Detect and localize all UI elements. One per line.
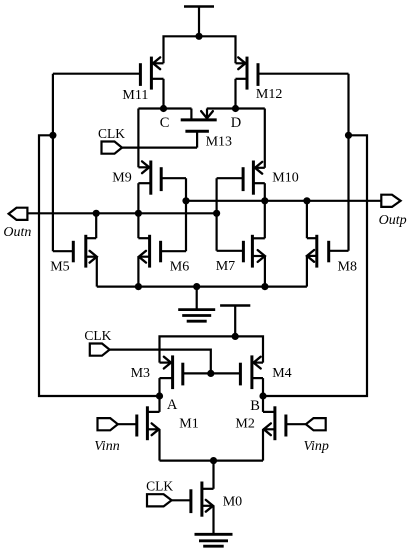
wire NMOS source rail [97, 286, 307, 288]
transistor M8 source lead [307, 256, 317, 287]
transistor M8 gate lead [329, 250, 349, 252]
transistor M13 right lead [206, 109, 208, 120]
svg-text:M4: M4 [272, 366, 291, 381]
transistor M3 channel bar [171, 355, 174, 389]
transistor M0 drain lead [202, 461, 214, 489]
transistor M10 gate lead [217, 177, 244, 179]
svg-text:C: C [160, 115, 170, 131]
svg-text:M10: M10 [272, 171, 298, 186]
transistor M8 drain lead [307, 201, 317, 238]
port CLK middle [90, 344, 110, 356]
svg-text:M5: M5 [50, 260, 69, 275]
transistor M7 gate bar [242, 241, 245, 262]
transistor M5 gate lead [53, 250, 73, 252]
transistor M4 source lead [252, 378, 263, 396]
svg-text:M6: M6 [170, 260, 189, 275]
vdd supply VDD2 [220, 306, 250, 337]
node VDD2 junction [232, 333, 239, 340]
wire M3-M4 gate line [183, 372, 241, 374]
transistor M7 drain lead [252, 237, 264, 239]
transistor M2 source arrow [264, 423, 271, 435]
transistor M10 drain lead [253, 167, 264, 169]
node B junction [259, 392, 266, 399]
transistor M5 gate bar [72, 241, 75, 262]
transistor M13 source arrow [201, 111, 213, 118]
svg-text:M13: M13 [206, 134, 232, 149]
node Outp-M9 gate [182, 197, 189, 204]
svg-text:M11: M11 [122, 88, 148, 103]
transistor M1 channel bar [146, 406, 149, 440]
svg-text:Vinp: Vinp [304, 439, 329, 454]
wire tail rail [160, 460, 264, 462]
ground lower [195, 534, 233, 546]
node Outn-M5 [93, 210, 100, 217]
node D junction [232, 105, 239, 112]
svg-text:M12: M12 [256, 87, 282, 102]
transistor M0 gate bar [189, 489, 192, 513]
transistor M6 source lead [138, 257, 149, 287]
transistor M0 source lead [202, 506, 214, 535]
transistor M11 drain lead [151, 62, 163, 64]
transistor M7 source arrow [258, 250, 265, 262]
transistor M10 gate bar [242, 167, 245, 191]
wire drain rail of M11/M12 [164, 36, 236, 63]
node VDD1 junction [195, 33, 202, 40]
transistor M0 channel bar [200, 482, 203, 517]
node Outp-M10/M7 [261, 197, 268, 204]
vdd supply VDD1 [184, 7, 214, 37]
wire Outn net [27, 212, 216, 214]
svg-text:M2: M2 [235, 417, 254, 432]
transistor M10 channel bar [252, 161, 255, 195]
svg-text:M1: M1 [179, 416, 198, 431]
transistor M6 gate bar [159, 241, 162, 262]
wire M10/M7 gate vertical [216, 178, 218, 251]
port Vinn [98, 418, 118, 430]
transistor M12 channel bar [246, 57, 249, 90]
wire right loop to node B [263, 135, 367, 396]
transistor M4 channel bar [250, 355, 253, 389]
transistor M4 gate bar [239, 363, 242, 386]
svg-text:CLK: CLK [98, 126, 125, 141]
transistor M9 gate lead [161, 177, 186, 179]
wire node D [207, 109, 265, 168]
wire M3/M4 drain rail [160, 336, 264, 362]
node CLK gate junction [207, 370, 214, 377]
port CLK upper [102, 142, 123, 154]
node A junction [156, 392, 163, 399]
transistor M2 gate lead [286, 423, 306, 425]
transistor M0 gate lead [172, 499, 191, 501]
transistor M6 channel bar [148, 235, 151, 268]
transistor M8 gate bar [327, 241, 330, 262]
wire M11 gate lead [53, 73, 140, 75]
transistor M5 drain lead [86, 213, 96, 238]
transistor M8 source arrow [307, 250, 314, 262]
transistor M3 gate bar [181, 363, 184, 386]
ground upper [178, 287, 215, 322]
transistor M2 drain lead [263, 396, 275, 412]
transistor M6 gate lead [161, 250, 186, 252]
wire right gate bus [347, 74, 349, 251]
transistor M1 gate bar [135, 415, 138, 437]
wire M12 gate lead [258, 73, 349, 75]
node rail-M7 [261, 283, 268, 290]
transistor M4 source arrow [254, 357, 261, 369]
svg-text:M3: M3 [131, 366, 150, 381]
transistor M11 source arrow [153, 57, 160, 69]
transistor M6 source arrow [139, 251, 146, 263]
transistor M6 drain lead [138, 213, 149, 238]
transistor M8 channel bar [315, 235, 318, 268]
wire M9/M6 gate vertical [185, 178, 187, 251]
svg-text:Outp: Outp [379, 213, 407, 228]
transistor M10 source lead [253, 183, 264, 238]
wire left gate bus [52, 74, 54, 252]
port Outp [381, 195, 400, 207]
transistor M3 drain lead [160, 362, 173, 364]
transistor M9 channel bar [149, 161, 152, 195]
transistor M11 channel bar [150, 57, 153, 90]
transistor M11 gate bar [139, 63, 142, 86]
transistor M4 drain lead [252, 362, 263, 364]
node right gate junction [345, 132, 352, 139]
wire CLK to M3/M4 gates [110, 350, 211, 374]
transistor M0 source arrow [206, 500, 213, 512]
transistor M13 left lead [190, 109, 192, 120]
wire CLK to M13 gate [122, 147, 197, 149]
svg-text:CLK: CLK [84, 328, 111, 343]
transistor M2 source lead [263, 429, 275, 460]
svg-text:M0: M0 [223, 494, 242, 509]
transistor M1 drain lead [147, 396, 159, 412]
transistor M5 source arrow [90, 251, 97, 263]
transistor M12 source arrow [238, 57, 245, 69]
transistor M7 gate lead [217, 250, 244, 252]
transistor M12 drain lead [236, 62, 248, 64]
transistor M12 gate bar [257, 63, 260, 86]
svg-text:Vinn: Vinn [94, 439, 119, 454]
transistor M9 drain lead [138, 166, 150, 168]
transistor M10 source arrow [255, 162, 262, 174]
transistor M7 source lead [252, 256, 265, 287]
transistor M2 gate bar [284, 415, 287, 437]
transistor M3 source lead [160, 378, 173, 396]
svg-text:M9: M9 [112, 170, 131, 185]
node Outp-M8 [303, 197, 310, 204]
wire Outp net [186, 200, 381, 202]
transistor M1 source arrow [152, 423, 159, 435]
node C junction [160, 105, 167, 112]
transistor M2 channel bar [273, 406, 276, 440]
transistor M9 source arrow [142, 161, 149, 173]
transistor M7 channel bar [251, 235, 254, 268]
node left gate junction [49, 132, 56, 139]
node rail-M6 [135, 283, 142, 290]
node Outn-M10 gate [213, 210, 220, 217]
transistor M11 source lead [151, 79, 163, 109]
wire node C [138, 109, 191, 168]
wire left loop to node A [39, 135, 160, 396]
port Outn [9, 208, 28, 220]
svg-text:M8: M8 [338, 260, 357, 275]
port Vinp [306, 418, 326, 430]
svg-text:M7: M7 [216, 259, 235, 274]
node tail junction [210, 457, 217, 464]
port CLK lower [147, 494, 172, 506]
node Outn-M9/M6 [135, 210, 142, 217]
transistor M3 source arrow [164, 357, 171, 369]
transistor M13 gate lead [196, 131, 198, 147]
svg-text:D: D [231, 115, 241, 131]
svg-text:A: A [167, 397, 178, 413]
transistor M1 gate lead [118, 423, 137, 425]
transistor M1 source lead [147, 429, 159, 460]
transistor M9 gate bar [160, 167, 163, 191]
svg-text:Outn: Outn [3, 225, 31, 240]
transistor M12 source lead [236, 79, 248, 109]
transistor M5 source lead [86, 257, 97, 287]
transistor M13 gate bar [185, 130, 209, 133]
transistor M5 channel bar [84, 235, 87, 268]
transistor M13 channel bar [181, 118, 217, 121]
node rail-ground [193, 283, 200, 290]
svg-text:B: B [250, 398, 260, 414]
transistor M9 source lead [138, 183, 150, 213]
svg-text:CLK: CLK [146, 479, 173, 494]
